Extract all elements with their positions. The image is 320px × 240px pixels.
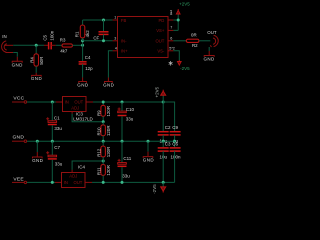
pin 8 PD [168,19,173,21]
svg-text:C2: C2 [165,125,171,130]
wire GND stub down [36,141,38,152]
svg-text:100n: 100n [49,30,54,40]
svg-text:4k2: 4k2 [85,30,90,38]
capacitor C1 33u [46,102,62,141]
node PD supply [177,19,180,22]
pin 4 IN+ [113,50,118,52]
wire IN- rail [83,40,113,42]
wire IN+ to ground [108,51,112,78]
svg-text:OUT: OUT [207,30,217,35]
svg-text:33u: 33u [54,126,62,131]
wire R3 to node [73,44,83,46]
svg-text:R4: R4 [30,57,35,63]
supply +2V5 arrow bottom block [154,86,165,102]
svg-text:GND: GND [13,134,25,140]
node C2/C3 [162,140,165,143]
svg-text:ADJ: ADJ [69,173,77,178]
svg-text:1: 1 [114,16,116,20]
node +2V5 / C2 [162,101,165,104]
resistor R1 4k2 feedback [75,20,91,41]
node C7 bottom [51,181,54,184]
wire IN to C5 [13,44,44,46]
capacitor C6 100n [170,141,181,182]
wire FB rail [83,19,113,21]
svg-text:R9: R9 [97,110,102,116]
svg-text:+2V5: +2V5 [154,86,159,97]
svg-text:VCC: VCC [13,96,24,102]
svg-text:VEE: VEE [13,176,24,182]
resistor R12 120R [97,141,112,161]
pin 7 VS+ [168,29,173,31]
svg-text:4k7: 4k7 [60,48,68,53]
svg-text:IC4: IC4 [78,164,86,169]
node C1 bottom / C7 top [51,140,54,143]
node C10 top [121,101,124,104]
svg-text:C11: C11 [123,156,131,161]
wire R2 to OUT connector [199,40,210,42]
wire C5 to R3 [56,44,62,46]
wire link up to IN- rail [82,41,84,46]
svg-text:PD: PD [158,18,164,23]
node C1 top [51,101,54,104]
ground symbol left [32,152,44,163]
node ADJ R12/R11 [102,160,105,163]
node input junction [35,44,38,47]
svg-text:VS+: VS+ [156,28,165,33]
pin 1 FB [113,19,118,21]
capacitor C4 12p [79,45,93,77]
svg-text:50R: 50R [39,57,44,65]
svg-text:120R: 120R [106,147,111,158]
svg-text:8: 8 [170,12,172,16]
svg-text:GND: GND [77,83,89,88]
svg-text:GND: GND [12,62,24,67]
capacitor C5 100n [42,30,55,49]
node CF top [102,19,105,22]
svg-text:ADJ: ADJ [71,105,79,110]
svg-text:CF: CF [93,35,99,40]
connector IN [2,34,14,52]
connector OUT [207,30,218,47]
svg-text:GND: GND [203,56,215,61]
svg-text:GND: GND [31,76,43,81]
svg-text:FB: FB [121,18,127,23]
svg-text:33u: 33u [122,173,130,178]
supply +2V5 arrow [176,2,190,15]
ground under OUT [203,51,215,61]
wire IC3 ADJ [71,111,73,114]
svg-text:OUT: OUT [155,39,164,44]
svg-text:120R: 120R [106,106,111,117]
node IN- rail left [81,39,84,42]
svg-text:6: 6 [170,36,172,40]
node CF bottom [102,39,105,42]
svg-text:33u: 33u [126,117,134,122]
wire OUT to R2 [173,40,186,42]
svg-text:5*2: 5*2 [169,47,175,51]
hidden-pin mark [169,61,173,66]
ground symbol right [143,152,155,163]
svg-text:-2V5: -2V5 [180,66,190,71]
svg-text:IN: IN [2,34,6,39]
pin 3 IN- [113,40,118,42]
svg-text:C7: C7 [54,145,60,150]
wire -2V5 rail [92,181,175,183]
supply -2V5 arrow [177,60,190,71]
capacitor C9 1u [170,125,181,144]
wire junction down to R4 [35,45,37,54]
svg-text:4: 4 [115,46,117,50]
svg-text:0R: 0R [191,33,197,38]
node GND stub [36,140,39,143]
wire OUT shield down [208,47,210,51]
wire VS- to -2V5 [173,51,179,61]
svg-text:C3: C3 [165,142,171,147]
svg-text:IN+: IN+ [121,49,128,54]
svg-text:R10: R10 [97,127,102,136]
svg-text:VS-: VS- [157,49,165,54]
svg-text:12p: 12p [85,66,93,71]
resistor R11 120R [97,161,112,182]
pin 6 OUT [168,40,173,42]
capacitor C2 10u [158,102,171,143]
capacitor C7 33u [46,141,63,182]
svg-text:C5: C5 [42,34,47,40]
svg-text:-2V5: -2V5 [152,184,157,194]
svg-text:120R: 120R [106,165,111,176]
node C9/C6 [173,140,176,143]
svg-text:GND: GND [143,158,155,163]
node R10 bottom [102,140,105,143]
regulator IC3 LM317LD [56,97,94,122]
node C10 bottom / C11 top [121,140,124,143]
supply -2V5 arrow bottom block [152,182,166,193]
node R9 top [102,101,105,104]
svg-text:7: 7 [170,26,172,30]
svg-text:IN-: IN- [121,39,127,44]
wire +2V5 rail corner to C9 [163,102,174,131]
node C3 bottom / -2V5 [162,181,165,184]
capacitor C3 10u [158,141,171,182]
svg-text:+2V5: +2V5 [179,2,190,7]
svg-text:IN: IN [64,180,68,185]
net label VEE [12,176,27,183]
node R3/C4 junction [81,44,84,47]
svg-text:R3: R3 [60,37,66,42]
svg-text:120R: 120R [106,126,111,137]
wire GND sym right down [147,141,149,151]
capacitor C10 33u [118,102,135,141]
svg-text:R12: R12 [97,148,102,157]
wire GND rail [27,140,175,142]
svg-text:OUT: OUT [74,180,83,185]
ground under C4 [77,78,89,88]
svg-text:GND: GND [103,83,115,88]
wire IN shield to ground [13,53,17,57]
svg-text:C10: C10 [126,107,135,112]
ground under IN+ [103,78,115,88]
ground under R4 [31,73,43,81]
regulator IC4 [55,164,92,187]
node R11 bottom [102,181,105,184]
svg-text:100n: 100n [170,154,181,159]
net label GND [12,134,27,142]
resistor R10 120R [97,122,112,141]
svg-text:33u: 33u [55,161,63,166]
svg-text:GND: GND [32,158,44,163]
svg-text:C6: C6 [172,142,178,147]
ground under IN [12,57,24,68]
resistor R2 0R [186,33,199,49]
svg-text:C1: C1 [54,116,60,121]
svg-text:IN: IN [65,100,69,105]
net label VCC [12,96,27,104]
node GND sym right [147,140,150,143]
svg-text:R11: R11 [97,167,102,175]
node ADJ R9/R10 [102,120,105,123]
wire VEE to IC4 [27,181,55,183]
op-amp IC box [118,17,169,58]
capacitor C11 33u [118,141,132,182]
wire VCC to IC3 [27,101,56,103]
svg-text:R2: R2 [192,43,198,48]
resistor R9 120R [97,102,112,122]
svg-text:C9: C9 [172,125,178,130]
wire IC3 out rail [93,101,163,103]
svg-text:OUT: OUT [74,100,83,105]
resistor R4 50R [30,54,44,73]
resistor R3 4k7 [60,37,73,53]
capacitor CF [93,20,108,41]
svg-text:LM317LD: LM317LD [73,116,93,121]
pin 5*2 VS- [168,50,173,52]
svg-text:R1: R1 [75,31,80,37]
wire IC4 ADJ [71,170,73,173]
svg-text:3: 3 [114,36,116,40]
wire PD/VS+ to +2V5 [173,15,178,31]
svg-text:C4: C4 [85,55,91,60]
node C11 bottom [121,181,124,184]
